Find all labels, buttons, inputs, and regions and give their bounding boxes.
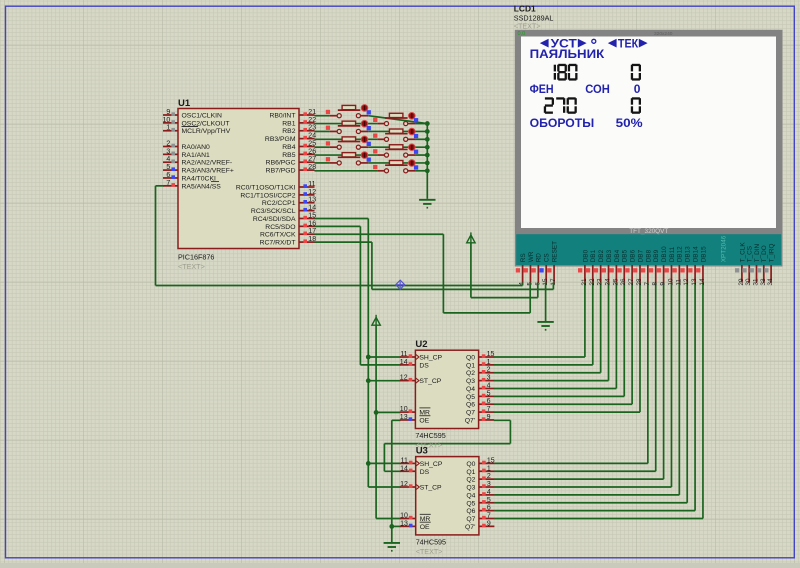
svg-text:<TEXT>: <TEXT> xyxy=(178,262,205,271)
U1 pin 25 (RB4) xyxy=(282,140,316,151)
svg-text:23: 23 xyxy=(597,278,604,286)
svg-text:DB7: DB7 xyxy=(637,249,644,262)
svg-text:DB11: DB11 xyxy=(669,246,676,262)
svg-text:15: 15 xyxy=(487,457,495,464)
svg-text:2: 2 xyxy=(166,140,170,147)
LCD screen 7-seg 0 (fan current) xyxy=(631,97,641,114)
junction node bus row 5 xyxy=(425,145,430,150)
svg-text:ФЕН: ФЕН xyxy=(530,82,554,96)
svg-text:14: 14 xyxy=(400,465,408,472)
wire LCD DB9 to U3 Q1 xyxy=(494,283,656,472)
svg-text:SH_CP: SH_CP xyxy=(419,355,442,362)
LCD LCD1 SSD1289AL labels xyxy=(514,4,554,31)
svg-text:2: 2 xyxy=(487,473,491,480)
U1 pin 23 (RB2) xyxy=(282,125,316,136)
svg-text:OSC1/CLKIN: OSC1/CLKIN xyxy=(182,113,223,120)
U1 pin 2 (RA0/AN0) xyxy=(163,140,210,151)
svg-text:0,0: 0,0 xyxy=(518,31,526,37)
svg-text:ПАЯЛЬНИК: ПАЯЛЬНИК xyxy=(530,47,605,61)
U1 pin 22 (RB1) xyxy=(282,117,316,128)
U2 pin 2 (Q2) xyxy=(466,367,494,378)
U3 pin 9 (Q7&#39;) xyxy=(465,520,494,531)
wire RC5 to U2 DS xyxy=(315,226,401,365)
wire RB7 to button 8 xyxy=(315,170,378,172)
push button 1 (RB0) xyxy=(326,105,371,118)
power VCC arrow for MR pins xyxy=(372,315,401,519)
svg-text:RA4/T0CKI: RA4/T0CKI xyxy=(182,175,216,182)
svg-text:4: 4 xyxy=(487,382,491,389)
svg-text:DB4: DB4 xyxy=(614,249,621,262)
LCD screen text line 4 xyxy=(530,82,641,96)
shift register U2 74HC595 body xyxy=(415,339,478,450)
svg-text:12: 12 xyxy=(400,375,408,382)
U3 pin 1 (Q1) xyxy=(466,465,494,476)
LCD1 pin 22 (DB1) xyxy=(586,249,597,285)
LCD1 pin 31 (T_DIN) xyxy=(750,243,761,285)
svg-text:Q6: Q6 xyxy=(466,402,475,409)
svg-text:RB4: RB4 xyxy=(282,144,295,151)
U3 pin 10 (MR) xyxy=(400,512,431,523)
svg-text:9: 9 xyxy=(487,520,491,527)
push button 5 (RB4) xyxy=(326,136,371,149)
LCD1 pin 23 (DB2) xyxy=(594,249,605,285)
svg-text:Q3: Q3 xyxy=(466,485,475,492)
U1 pin 1 (MCLR/Vpp/THV) xyxy=(163,125,231,136)
svg-text:U1: U1 xyxy=(178,98,191,109)
svg-text:RC0/T1OSO/T1CKI: RC0/T1OSO/T1CKI xyxy=(236,185,296,192)
U3 pin 12 (ST_CP) xyxy=(400,481,442,492)
push button 7 (RB6) xyxy=(326,152,371,165)
U1 pin 7 (RA5/AN4/SS) xyxy=(163,180,221,191)
U1 pin 28 (RB7/PGD) xyxy=(266,164,317,175)
op-amp U1 microcontroller PIC16F876 body xyxy=(178,98,299,271)
svg-text:RC4/SDI/SDA: RC4/SDI/SDA xyxy=(253,216,296,223)
svg-text:10: 10 xyxy=(400,406,408,413)
U1 pin 10 (OSC2/CLKOUT) xyxy=(163,117,230,128)
U3 pin 3 (Q3) xyxy=(466,481,494,492)
U1 pin 18 (RC7/RX/DT) xyxy=(260,236,317,247)
LCD1 pin 6 (RD) xyxy=(532,253,543,286)
power VCC arrow for LCD RD xyxy=(467,232,538,297)
svg-text:14: 14 xyxy=(400,359,408,366)
LCD1 pin 13 (DB14) xyxy=(688,246,699,286)
wire RB5 to button 6 xyxy=(315,154,378,156)
svg-text:5: 5 xyxy=(487,497,491,504)
svg-text:LCD1: LCD1 xyxy=(514,4,536,14)
U2 pin 12 (ST_CP) xyxy=(400,375,442,386)
U3 pin 15 (Q0) xyxy=(466,457,494,468)
U1 pin 21 (RB0/INT) xyxy=(269,109,316,120)
svg-text:RA5/AN4/SS: RA5/AN4/SS xyxy=(182,183,222,190)
U1 pin 9 (OSC1/CLKIN) xyxy=(163,109,222,120)
svg-text:28: 28 xyxy=(636,278,643,286)
wire RC7 to LCD RESET xyxy=(315,242,554,289)
svg-text:ST_CP: ST_CP xyxy=(419,378,441,385)
wire RC4 to SH_CP/ST_CP bus xyxy=(315,218,401,487)
LCD1 pin 12 (DB13) xyxy=(680,246,691,286)
svg-text:6: 6 xyxy=(487,505,491,512)
svg-text:320x240: 320x240 xyxy=(654,31,673,37)
LCD XPT2046 label xyxy=(721,235,728,262)
wire LCD DB6 to U2 Q6 xyxy=(494,283,632,405)
wire LCD DB2 to U2 Q2 xyxy=(494,283,601,373)
svg-text:RB1: RB1 xyxy=(282,120,295,127)
U3 pin 7 (Q7) xyxy=(466,512,494,523)
LCD1 pin 26 (DB5) xyxy=(617,249,628,285)
svg-text:Q7': Q7' xyxy=(465,417,475,424)
svg-text:RB3/PGM: RB3/PGM xyxy=(265,136,296,143)
wire ground bus vertical xyxy=(426,124,428,199)
svg-text:21: 21 xyxy=(581,278,588,286)
wire button 5 to ground bus xyxy=(368,146,427,148)
LCD screen 7-seg 270 xyxy=(544,97,577,114)
svg-text:DB8: DB8 xyxy=(645,249,652,262)
U3 pin 11 (SH_CP) xyxy=(400,457,443,468)
LCD1 pin 29 (T_CLK) xyxy=(735,242,746,286)
svg-text:8: 8 xyxy=(652,282,659,286)
wire RA5 to LCD RS xyxy=(156,186,523,286)
svg-text:9: 9 xyxy=(660,282,667,286)
svg-text:RC3/SCK/SCL: RC3/SCK/SCL xyxy=(251,208,296,215)
U1 pin 3 (RA1/AN1) xyxy=(163,148,210,159)
U2 pin 7 (Q7) xyxy=(466,406,494,417)
junction node VCC/U2 MR xyxy=(374,410,379,415)
wire button 4 to ground bus xyxy=(416,138,428,140)
U1 pin 26 (RB5) xyxy=(282,148,316,159)
LCD1 pin 27 (DB6) xyxy=(625,249,636,285)
wire button 3 to ground bus xyxy=(368,130,427,132)
junction node RC4/U2 SH_CP xyxy=(366,355,371,360)
svg-text:12: 12 xyxy=(400,481,408,488)
LCD1 pin 25 (DB4) xyxy=(610,249,621,285)
svg-text:27: 27 xyxy=(628,278,635,286)
push button 3 (RB2) xyxy=(326,120,371,133)
LCD1 pin 14 (DB15) xyxy=(696,246,707,286)
svg-text:0: 0 xyxy=(634,82,641,96)
svg-text:13: 13 xyxy=(308,197,316,204)
svg-text:RESET: RESET xyxy=(551,241,558,262)
U1 pin 11 (RC0/T1OSO/T1CKI) xyxy=(236,181,316,192)
svg-text:DB15: DB15 xyxy=(700,246,707,262)
wire U2 Q7' cascade to U3 DS xyxy=(384,420,510,471)
LCD1 pin 10 (DB11) xyxy=(665,246,676,285)
push button 8 (RB7) xyxy=(373,160,418,173)
svg-text:9: 9 xyxy=(487,414,491,421)
svg-text:14: 14 xyxy=(699,278,706,286)
svg-text:1: 1 xyxy=(487,359,491,366)
svg-text:WR: WR xyxy=(528,251,535,262)
wire LCD RD down xyxy=(537,283,539,298)
svg-text:13: 13 xyxy=(400,520,408,527)
svg-text:XPT2046: XPT2046 xyxy=(721,235,728,262)
svg-text:12: 12 xyxy=(308,189,316,196)
wire RB6 to button 7 xyxy=(315,162,330,164)
wire RB3 to button 4 xyxy=(315,138,378,140)
svg-text:7: 7 xyxy=(487,512,491,519)
svg-text:RB7/PGD: RB7/PGD xyxy=(266,168,296,175)
LCD1 pin 4 (RS) xyxy=(516,253,527,285)
svg-text:Q4: Q4 xyxy=(466,386,475,393)
svg-text:ТЕК: ТЕК xyxy=(618,36,639,50)
svg-text:15: 15 xyxy=(487,351,495,358)
svg-text:13: 13 xyxy=(691,278,698,286)
junction node bus row 4 xyxy=(425,137,430,142)
svg-text:6: 6 xyxy=(166,172,170,179)
LCD pin strip xyxy=(516,234,781,265)
svg-text:31: 31 xyxy=(753,278,760,286)
wire LCD RS down xyxy=(522,283,524,286)
svg-text:Q0: Q0 xyxy=(466,461,475,468)
svg-text:12: 12 xyxy=(683,278,690,286)
svg-text:DB0: DB0 xyxy=(582,249,589,262)
svg-text:<TEXT>: <TEXT> xyxy=(514,21,541,30)
svg-text:25: 25 xyxy=(612,278,619,286)
svg-text:DB9: DB9 xyxy=(653,249,660,262)
LCD1 pin 5 (WR) xyxy=(524,251,535,285)
svg-text:Q1: Q1 xyxy=(466,469,475,476)
svg-text:<TEXT>: <TEXT> xyxy=(416,547,443,556)
wire LCD DB4 to U2 Q4 xyxy=(494,283,616,389)
wire RB4 to button 5 xyxy=(315,146,330,148)
svg-text:OE: OE xyxy=(420,524,430,531)
U1 pin 5 (RA3/AN3/VREF+) xyxy=(163,164,234,175)
push button 4 (RB3) xyxy=(373,128,418,141)
U3 pin 13 (OE) xyxy=(400,520,431,531)
svg-text:Q2: Q2 xyxy=(466,477,475,484)
svg-text:RB0/INT: RB0/INT xyxy=(269,113,295,120)
wire U2 OE / U3 OE to ground xyxy=(392,420,401,542)
wire LCD RESET down xyxy=(552,283,554,290)
svg-text:MCLR/Vpp/THV: MCLR/Vpp/THV xyxy=(182,128,231,135)
LCD1 pin 21 (DB0) xyxy=(578,249,589,285)
push button 6 (RB5) xyxy=(373,144,418,157)
svg-text:11: 11 xyxy=(400,351,407,358)
svg-text:Q7': Q7' xyxy=(465,524,475,531)
LCD1 pin 34 (T_IRQ) xyxy=(764,243,775,285)
svg-text:30: 30 xyxy=(745,278,752,286)
svg-text:7: 7 xyxy=(644,282,651,286)
svg-text:4: 4 xyxy=(166,156,170,163)
svg-text:11: 11 xyxy=(401,457,408,464)
wire LCD DB15 to U3 Q7 xyxy=(494,283,703,519)
LCD1 pin 17 (RESET) xyxy=(547,241,558,286)
LCD bezel xyxy=(515,30,783,267)
push button 2 (RB1) xyxy=(373,112,418,125)
U2 pin 1 (Q1) xyxy=(466,359,494,370)
LCD1 pin 15 (CS) xyxy=(539,253,550,285)
wire RC6 to LCD WR xyxy=(315,234,531,313)
LCD1 pin 30 (T_CS) xyxy=(742,246,753,286)
LCD1 pin 33 (T_DO) xyxy=(757,245,768,285)
U2 pin 10 (MR) xyxy=(400,406,431,417)
svg-text:DB14: DB14 xyxy=(692,246,699,262)
svg-text:DB3: DB3 xyxy=(606,249,613,262)
LCD1 pin 7 (DB8) xyxy=(641,249,652,285)
LCD1 pin 11 (DB12) xyxy=(673,246,684,286)
svg-text:DB13: DB13 xyxy=(685,246,692,262)
svg-text:9: 9 xyxy=(166,109,170,116)
svg-text:T_DIN: T_DIN xyxy=(754,243,761,262)
junction node bus row 2 xyxy=(425,121,430,126)
svg-text:T_DO: T_DO xyxy=(761,245,768,262)
svg-text:OE: OE xyxy=(419,417,429,424)
svg-text:RC5/SDO: RC5/SDO xyxy=(265,224,295,231)
svg-text:DB12: DB12 xyxy=(677,246,684,262)
U2 pin 13 (OE) xyxy=(400,414,431,425)
svg-text:34: 34 xyxy=(767,278,774,286)
wire LCD WR down xyxy=(529,283,531,313)
LCD1 pin 9 (DB10) xyxy=(657,246,668,286)
svg-text:CS: CS xyxy=(544,253,551,262)
wire LCD DB3 to U2 Q3 xyxy=(494,283,609,381)
LCD screen text line 6 xyxy=(530,116,643,130)
U2 pin 14 (DS) xyxy=(400,359,430,370)
wire button 1 diagonal to ground bus xyxy=(368,116,427,124)
svg-text:13: 13 xyxy=(400,414,408,421)
wire button 8 to ground bus xyxy=(416,170,428,172)
wire LCD DB13 to U3 Q5 xyxy=(494,283,687,503)
U1 pin 24 (RB3/PGM) xyxy=(265,133,316,144)
svg-text:Q5: Q5 xyxy=(466,500,475,507)
svg-text:T_CS: T_CS xyxy=(747,246,754,262)
svg-text:10: 10 xyxy=(400,512,408,519)
svg-text:Q7: Q7 xyxy=(466,516,475,523)
svg-text:5: 5 xyxy=(166,164,170,171)
svg-text:DB1: DB1 xyxy=(590,249,597,262)
svg-text:DS: DS xyxy=(419,362,429,369)
svg-text:RS: RS xyxy=(520,253,527,262)
svg-text:RD: RD xyxy=(536,253,543,263)
svg-text:33: 33 xyxy=(760,278,767,286)
wire button 2 to ground bus xyxy=(416,123,428,125)
svg-text:T_CLK: T_CLK xyxy=(739,242,746,263)
junction node RC4/U2 ST_CP xyxy=(366,378,371,383)
svg-text:DB10: DB10 xyxy=(661,246,668,262)
LCD screen text line 2 xyxy=(530,47,605,61)
svg-text:5: 5 xyxy=(487,390,491,397)
svg-text:Q5: Q5 xyxy=(466,394,475,401)
LCD1 pin 24 (DB3) xyxy=(602,249,613,285)
svg-text:TFT_320QVT: TFT_320QVT xyxy=(629,228,668,235)
LCD1 pin 8 (DB9) xyxy=(649,249,660,285)
svg-text:RB2: RB2 xyxy=(282,128,295,135)
U1 pin 16 (RC5/SDO) xyxy=(265,220,316,231)
svg-text:T_IRQ: T_IRQ xyxy=(769,243,776,262)
svg-text:RA3/AN3/VREF+: RA3/AN3/VREF+ xyxy=(182,168,234,175)
U2 pin 3 (Q3) xyxy=(466,375,494,386)
svg-text:22: 22 xyxy=(589,278,596,286)
wire LCD DB12 to U3 Q4 xyxy=(494,283,679,495)
svg-text:DB2: DB2 xyxy=(598,249,605,262)
svg-text:Q2: Q2 xyxy=(466,370,475,377)
U2 pin 15 (Q0) xyxy=(466,351,494,362)
wire LCD DB11 to U3 Q3 xyxy=(494,283,671,488)
U1 pin 17 (RC6/TX/CK) xyxy=(260,228,316,239)
U3 pin 6 (Q6) xyxy=(466,505,494,516)
svg-text:74HC595: 74HC595 xyxy=(415,431,445,440)
junction node bus row 8 xyxy=(425,168,430,173)
U3 pin 2 (Q2) xyxy=(466,473,494,484)
U1 pin 14 (RC3/SCK/SCL) xyxy=(251,205,316,216)
U1 pin 4 (RA2/AN2/VREF-) xyxy=(163,156,232,167)
svg-text:10: 10 xyxy=(163,117,171,124)
U3 pin 5 (Q5) xyxy=(466,497,494,508)
svg-text:3: 3 xyxy=(487,481,491,488)
svg-text:74HC595: 74HC595 xyxy=(416,537,446,546)
wire LCD DB10 to U3 Q2 xyxy=(494,283,663,480)
svg-text:1: 1 xyxy=(166,125,170,132)
ground symbol buttons bus xyxy=(419,200,435,208)
origin marker xyxy=(396,280,405,289)
U2 pin 6 (Q6) xyxy=(466,398,494,409)
svg-text:Q3: Q3 xyxy=(466,378,475,385)
svg-text:RC1/T1OSI/CCP2: RC1/T1OSI/CCP2 xyxy=(240,192,295,199)
junction node OE chain xyxy=(389,524,394,529)
U2 pin 5 (Q5) xyxy=(466,390,494,401)
svg-text:RB6/PGC: RB6/PGC xyxy=(266,160,296,167)
shift register U3 74HC595 body xyxy=(416,445,479,556)
junction node bus row 3 xyxy=(425,129,430,134)
U1 pin 27 (RB6/PGC) xyxy=(266,156,317,167)
wire LCD DB5 to U2 Q5 xyxy=(494,283,624,397)
svg-text:RC2/CCP1: RC2/CCP1 xyxy=(262,200,296,207)
U1 pin 13 (RC2/CCP1) xyxy=(262,197,316,208)
svg-text:26: 26 xyxy=(620,278,627,286)
svg-text:U3: U3 xyxy=(416,445,428,456)
svg-text:RA0/AN0: RA0/AN0 xyxy=(182,144,211,151)
U1 pin 6 (RA4/T0CKI) xyxy=(163,172,216,183)
svg-text:Q1: Q1 xyxy=(466,362,475,369)
wire RB0 to button 1 xyxy=(315,115,330,117)
svg-text:PIC16F876: PIC16F876 xyxy=(178,253,214,262)
svg-text:11: 11 xyxy=(308,181,315,188)
LCD screen 7-seg 0 (soldering current) xyxy=(631,64,641,81)
svg-text:RC6/TX/CK: RC6/TX/CK xyxy=(260,232,296,239)
svg-text:SH_CP: SH_CP xyxy=(420,461,443,468)
svg-text:11: 11 xyxy=(675,279,682,286)
svg-text:50%: 50% xyxy=(616,116,643,130)
wire LCD DB7 to U2 Q7 xyxy=(494,283,640,413)
svg-text:Q6: Q6 xyxy=(466,508,475,515)
svg-text:RA2/AN2/VREF-: RA2/AN2/VREF- xyxy=(182,160,233,167)
svg-text:2: 2 xyxy=(487,367,491,374)
svg-text:3: 3 xyxy=(166,148,170,155)
ground symbol OE xyxy=(384,543,400,551)
junction node bus row 7 xyxy=(425,161,430,166)
U2 pin 11 (SH_CP) xyxy=(400,351,443,362)
svg-text:6: 6 xyxy=(487,398,491,405)
svg-text:Q4: Q4 xyxy=(466,492,475,499)
wire LCD CS to ground xyxy=(545,283,547,322)
wire LCD DB14 to U3 Q6 xyxy=(494,283,695,511)
svg-text:7: 7 xyxy=(166,180,170,187)
svg-text:DB6: DB6 xyxy=(630,249,637,262)
svg-text:10: 10 xyxy=(667,278,674,286)
LCD screen text line 1 xyxy=(540,36,648,50)
svg-text:7: 7 xyxy=(487,406,491,413)
svg-text:U2: U2 xyxy=(415,339,427,350)
svg-text:3: 3 xyxy=(487,375,491,382)
wire RB2 to button 3 xyxy=(315,130,330,132)
svg-text:Q0: Q0 xyxy=(466,355,475,362)
LCD screen 7-seg 180 xyxy=(554,64,578,81)
svg-text:24: 24 xyxy=(605,278,612,286)
U1 pin 15 (RC4/SDI/SDA) xyxy=(253,212,316,223)
U1 pin 12 (RC1/T1OSI/CCP2) xyxy=(240,189,316,200)
junction node RC4/U3 SH_CP xyxy=(366,461,371,466)
svg-text:ST_CP: ST_CP xyxy=(420,485,442,492)
svg-text:DS: DS xyxy=(420,469,430,476)
